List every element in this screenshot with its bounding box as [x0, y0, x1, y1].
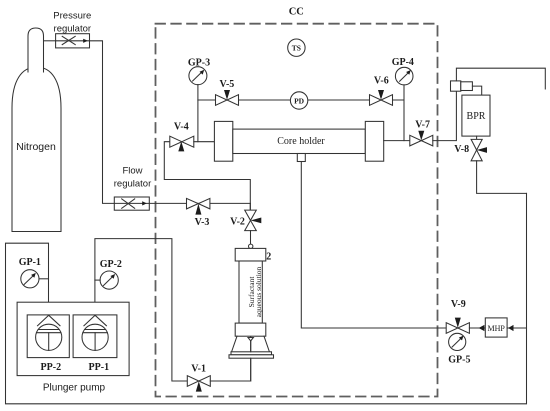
wire: pressure regulator to flow regulator	[90, 41, 115, 204]
valve V-3	[187, 198, 210, 228]
svg-text:Pressure: Pressure	[53, 11, 91, 22]
wire: cylinder neck to pressure regulator	[44, 40, 56, 42]
wire: GP-2 loop over to V-1 drop	[95, 239, 187, 381]
BPR vessel	[462, 95, 490, 136]
svg-text:GP-5: GP-5	[448, 355, 470, 366]
valve V-6	[370, 76, 393, 106]
svg-text:V-5: V-5	[219, 79, 234, 90]
instrument PD	[290, 92, 307, 109]
svg-text:Core holder: Core holder	[277, 136, 325, 147]
CC dashed boundary	[156, 24, 438, 397]
svg-text:V-7: V-7	[415, 120, 430, 131]
svg-text:PP-2: PP-2	[41, 362, 62, 373]
valve V-8	[454, 139, 487, 160]
svg-text:GP-1: GP-1	[19, 257, 41, 268]
instrument TS	[288, 39, 305, 56]
svg-text:V-3: V-3	[195, 217, 210, 228]
wire: V-4 to core holder left cap with GP-3 junction	[194, 141, 215, 143]
nitrogen cylinder	[12, 28, 61, 232]
gauge GP-2	[95, 259, 122, 289]
svg-text:regulator: regulator	[54, 23, 92, 34]
svg-text:V-4: V-4	[174, 122, 189, 133]
wire: upper branch from GP-3 line through V-5 PD V-6 to GP-4	[198, 99, 403, 101]
accumulator: surfactant aqueous solution	[229, 248, 274, 381]
svg-text:V-6: V-6	[374, 76, 389, 87]
MHP box	[485, 318, 507, 337]
gauge GP-1	[19, 257, 49, 288]
valve V-9	[446, 299, 469, 333]
svg-text:GP-4: GP-4	[392, 57, 414, 68]
svg-text:MHP: MHP	[488, 324, 506, 333]
wire: core holder right cap to V-7	[384, 140, 410, 142]
wire: V-4 branch corner to node	[164, 142, 250, 211]
valve V-4	[170, 122, 194, 152]
svg-text:Flow: Flow	[122, 165, 142, 176]
svg-text:GP-2: GP-2	[100, 259, 122, 270]
svg-text:regulator: regulator	[114, 178, 152, 189]
wire: BPR vent line	[456, 68, 545, 89]
valve V-7	[410, 120, 433, 146]
wire: V-7 to BPR fitting riser	[433, 91, 457, 140]
wire: flow regulator into CC to valve V-3 and node at x250	[149, 202, 250, 204]
svg-text:2: 2	[266, 251, 271, 262]
wire: BPR bottom to V-8	[476, 136, 478, 139]
svg-text:CC: CC	[289, 7, 304, 18]
plunger pump inner box	[17, 302, 129, 375]
svg-text:Plunger pump: Plunger pump	[43, 383, 106, 394]
wire: perimeter return line right-bottom-left	[6, 193, 527, 403]
wire: V-8 down and right to perimeter line	[477, 161, 527, 194]
svg-text:aqueous solution: aqueous solution	[254, 266, 263, 317]
wire: MHP to perimeter with arrow	[507, 327, 526, 329]
svg-text:PD: PD	[294, 96, 305, 105]
flow regulator FR	[114, 165, 152, 210]
gauge GP-4	[392, 57, 414, 141]
gauge GP-5	[448, 333, 470, 365]
svg-text:BPR: BPR	[467, 111, 486, 122]
pressure regulator PR	[53, 11, 91, 48]
valve V-2	[230, 203, 261, 244]
svg-text:V-1: V-1	[191, 364, 206, 375]
valve V-1	[187, 364, 210, 392]
svg-text:V-9: V-9	[451, 299, 466, 310]
gauge GP-3	[188, 58, 210, 142]
wire: fitting to BPR vessel top	[472, 86, 481, 95]
wire: V-1 to accumulator bottom line	[210, 336, 250, 381]
wire: V-9 to MHP with arrows	[469, 327, 485, 329]
svg-text:PP-1: PP-1	[89, 362, 110, 373]
wire: core holder tap down to V-9 line	[301, 162, 446, 329]
pump PP-1	[73, 315, 117, 373]
svg-text:V-8: V-8	[454, 144, 469, 155]
svg-text:Nitrogen: Nitrogen	[16, 141, 56, 153]
core holder	[214, 121, 383, 161]
pump PP-2	[27, 315, 69, 373]
BPR fitting blocks	[451, 81, 473, 91]
valve V-5	[216, 79, 239, 105]
svg-text:TS: TS	[292, 44, 301, 53]
accumulator port circle	[249, 244, 253, 248]
svg-text:V-2: V-2	[230, 217, 245, 228]
